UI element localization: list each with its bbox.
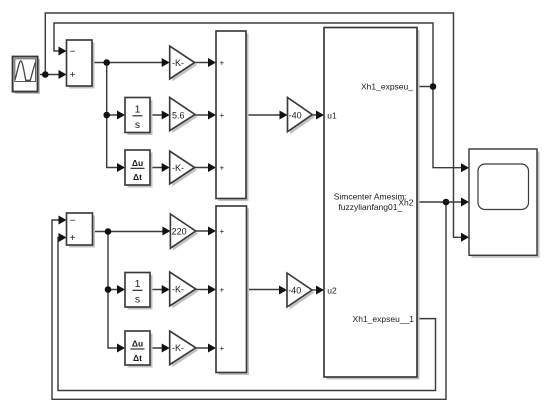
svg-text:−: −: [70, 46, 76, 57]
wire sum1 output trunk: [92, 63, 168, 168]
wire gain-40a to u1: [312, 114, 322, 116]
wire Xh1_expseu__1 to sum2 plus: [58, 238, 436, 391]
derivative block du/dt top: [125, 150, 153, 188]
wire sum2 output trunk: [93, 232, 169, 349]
arrowhead add2 in1: [208, 227, 216, 236]
svg-text:+: +: [70, 70, 76, 81]
sum block sum2: [67, 213, 96, 248]
wire gain4 to add2: [196, 289, 214, 291]
svg-text:-40: -40: [289, 111, 302, 121]
svg-text:+: +: [220, 111, 225, 120]
arrowhead add2 in3: [208, 344, 216, 353]
arrowhead sum1 minus: [59, 47, 67, 56]
wire der2 to gain5: [150, 347, 168, 349]
gain G2 5.6: [170, 97, 198, 133]
arrowhead scope in2: [461, 198, 469, 207]
wire Xh1_expseu_ output to junction: [417, 86, 433, 88]
junction node sum2 out row2: [105, 286, 112, 293]
svg-text:Xh1_expseu_: Xh1_expseu_: [361, 82, 413, 92]
arrowhead gain-40a input: [280, 111, 288, 120]
svg-text:1: 1: [135, 104, 141, 116]
gain -40 b: [287, 273, 315, 310]
signal source block (signal builder): [13, 57, 40, 94]
svg-text:+: +: [220, 164, 225, 173]
svg-text:-K-: -K-: [172, 284, 184, 294]
svg-text:220: 220: [172, 226, 187, 236]
wire gain5 to add2: [196, 347, 214, 349]
integrator block 1/s bottom: [125, 273, 153, 310]
svg-text:-K-: -K-: [172, 163, 184, 173]
arrowhead sum1 plus: [59, 70, 67, 79]
svg-text:Δt: Δt: [133, 353, 142, 363]
gain -40 a: [288, 98, 315, 135]
arrowhead der1 input: [117, 163, 125, 172]
svg-text:+: +: [220, 286, 225, 295]
integrator block 1/s top: [125, 98, 153, 136]
junction node sum2 out row1: [105, 228, 112, 235]
svg-text:+: +: [220, 227, 225, 236]
svg-text:+: +: [70, 233, 76, 244]
svg-text:−: −: [70, 215, 76, 226]
arrowhead add1 in2: [208, 111, 216, 120]
wire gain2 to add1: [195, 114, 214, 116]
wire der1 to gain3: [150, 167, 168, 169]
wire Xh2 output to scope in2: [417, 201, 467, 203]
arrowhead int2 input: [117, 285, 125, 294]
svg-text:Δu: Δu: [132, 158, 143, 168]
svg-text:Δt: Δt: [133, 172, 142, 182]
arrowhead u2 input: [316, 286, 324, 295]
wire add2 to gain-40b: [247, 289, 286, 291]
derivative block du/dt bottom: [125, 331, 153, 368]
svg-text:-40: -40: [288, 286, 301, 296]
arrowhead gain1 input: [162, 58, 170, 67]
add block add2: [216, 206, 249, 375]
wire source to sum1 plus: [38, 74, 65, 76]
wire add1 to gain-40a: [246, 114, 286, 116]
svg-text:1: 1: [135, 278, 141, 290]
scope block: [469, 149, 540, 258]
wire Xh2 branch to sum2 minus: [52, 202, 446, 399]
junction node source branch: [42, 71, 49, 78]
arrowhead gain2 input: [162, 111, 170, 120]
arrowhead scope in3: [461, 233, 469, 242]
svg-text:Δu: Δu: [132, 338, 143, 348]
svg-text:Xh1_expseu__1: Xh1_expseu__1: [353, 314, 415, 324]
wire gain-40b to u2: [312, 289, 323, 291]
big cosim block Simcenter Amesim fuzzylianfang01_: [324, 28, 420, 380]
svg-text:+: +: [220, 59, 225, 68]
arrowhead add1 in1: [208, 58, 216, 67]
junction node Xh1_expseu_: [430, 83, 437, 90]
gain G5 -K-: [170, 331, 199, 367]
arrowhead add2 in2: [208, 285, 216, 294]
wire gain3 to add1: [195, 167, 214, 169]
arrowhead gain3 input: [162, 163, 170, 172]
svg-text:s: s: [135, 294, 140, 306]
arrowhead scope in1: [461, 163, 469, 172]
arrowhead gain5 input: [162, 344, 170, 353]
arrowhead add1 in3: [208, 163, 216, 172]
wire gain220 to add2: [196, 230, 214, 232]
junction node sum1 out row1: [103, 59, 110, 66]
svg-text:5.6: 5.6: [172, 110, 185, 120]
arrowhead u1 input: [316, 111, 324, 120]
junction node sum1 out row2: [103, 112, 110, 119]
svg-text:s: s: [135, 119, 140, 131]
arrowhead sum2 minus: [59, 216, 67, 225]
svg-text:Simcenter Amesim:: Simcenter Amesim:: [334, 192, 407, 202]
wire inner feedback (Xh1_expseu_ to sum1 minus and scope in1): [54, 23, 467, 168]
sum block sum1: [67, 40, 95, 89]
gain G220 220: [170, 214, 198, 251]
junction node Xh2: [443, 199, 450, 206]
arrowhead int1 input: [117, 111, 125, 120]
wire int1 to gain2: [150, 114, 168, 116]
wire gain1 to add1: [195, 62, 214, 64]
add block add1: [216, 31, 249, 201]
svg-text:fuzzylianfang01_: fuzzylianfang01_: [338, 202, 402, 212]
gain G4 -K-: [170, 272, 199, 309]
gain G1 -K-: [170, 46, 197, 82]
arrowhead gain-40b input: [279, 286, 287, 295]
svg-text:u2: u2: [327, 285, 337, 295]
arrowhead der2 input: [117, 344, 125, 353]
svg-text:+: +: [220, 344, 225, 353]
arrowhead gain220 input: [162, 227, 170, 236]
svg-text:-K-: -K-: [172, 58, 184, 68]
gain G3 -K-: [170, 151, 197, 187]
wire top feedback outer (source to scope in3): [45, 13, 467, 237]
svg-text:u1: u1: [327, 110, 337, 120]
arrowhead gain4 input: [162, 285, 170, 294]
wire int2 to gain4: [150, 289, 168, 291]
svg-text:-K-: -K-: [172, 343, 184, 353]
arrowhead sum2 plus: [59, 233, 67, 242]
